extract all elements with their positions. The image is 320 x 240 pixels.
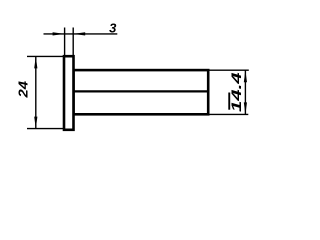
flange (rivet head) [64, 56, 74, 130]
arrowhead left (dim 3, points right) [53, 32, 65, 35]
extension line bottom (dim 14.4) [209, 113, 248, 115]
svg-text:24: 24 [15, 80, 30, 99]
arrowhead bottom (dim 24, points down) [34, 117, 37, 129]
extension line top (dim 14.4) [209, 69, 249, 71]
dimension line for 24 [35, 56, 37, 128]
extension line top (dim 24) [27, 55, 64, 57]
arrowhead top (dim 14.4, points up) [244, 70, 247, 82]
arrowhead top (dim 24, points up) [34, 56, 37, 68]
dimension line for 3 [44, 33, 118, 35]
extension line left of flange top edge (dim 3) [64, 28, 66, 58]
extension line right of flange top edge (dim 3) [72, 28, 74, 58]
arrowhead bottom (dim 14.4, points down) [244, 102, 247, 114]
center line of shaft [75, 90, 208, 92]
extension line bottom (dim 24) [27, 128, 64, 130]
svg-text:3: 3 [109, 21, 117, 36]
svg-text:14.4: 14.4 [229, 72, 244, 112]
shaft (rivet body) [74, 70, 209, 114]
arrowhead right (dim 3, points left) [73, 32, 85, 35]
tick mark beside 14.4 text [228, 93, 230, 110]
dimension line for 14.4 [244, 70, 246, 114]
